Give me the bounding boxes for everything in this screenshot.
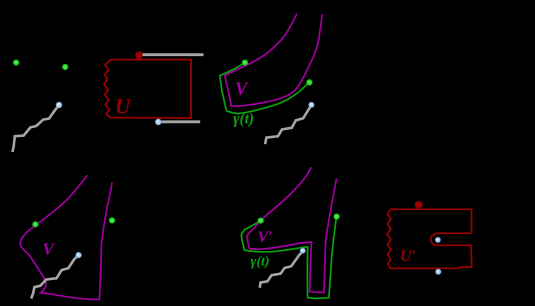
green point P1 — [13, 60, 19, 66]
red point on U' — [415, 201, 423, 209]
green curve gamma(t) around V' — [241, 217, 336, 299]
green point on gamma entering V — [242, 60, 248, 66]
blue point in slot — [435, 237, 440, 242]
blue point under U' — [436, 269, 441, 274]
red point on U — [135, 51, 143, 59]
gray trajectory tail Z1 — [13, 105, 59, 152]
green point Q1 — [32, 221, 38, 227]
purple region V' boundary (hook) — [247, 167, 337, 292]
svg-text:V′: V′ — [258, 229, 273, 246]
svg-text:U: U — [115, 95, 132, 119]
svg-text:γ(t): γ(t) — [251, 255, 270, 270]
svg-text:U′: U′ — [400, 248, 416, 265]
green curve gamma(t) around V — [220, 63, 310, 114]
purple region V boundary (open) — [20, 175, 112, 299]
green point on gamma leaving V' — [334, 214, 340, 220]
blue point B2 — [309, 102, 314, 107]
blue point B4 — [300, 248, 305, 253]
green point Q2 — [109, 217, 115, 223]
gray trajectory tail Z4 — [260, 251, 303, 288]
purple region V boundary — [225, 14, 323, 107]
blue point B3 — [76, 252, 81, 257]
green point P2 — [62, 64, 68, 70]
gray bar bottom — [162, 120, 201, 123]
green point on gamma leaving V — [306, 79, 312, 85]
green point on gamma entering V' — [258, 218, 264, 224]
region U' outline (slotted, torn left edge) — [387, 209, 472, 268]
region U outline (torn left edge) — [104, 60, 191, 118]
svg-text:V: V — [43, 240, 56, 259]
svg-text:γ(t): γ(t) — [233, 111, 254, 128]
svg-text:V: V — [235, 80, 249, 100]
blue point on U bottom — [155, 119, 161, 125]
gray bar top — [143, 53, 204, 56]
gray trajectory tail Z3 — [31, 255, 78, 298]
blue point B1 — [56, 102, 62, 108]
gray trajectory tail Z2 — [265, 105, 311, 144]
